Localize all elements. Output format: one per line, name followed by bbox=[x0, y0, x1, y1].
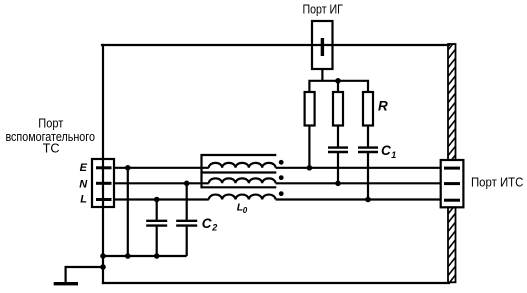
svg-text:Порт ИТС: Порт ИТС bbox=[471, 175, 523, 190]
resistor R3 bbox=[363, 92, 373, 126]
polarity dot L bbox=[279, 191, 284, 196]
svg-text:ТС: ТС bbox=[43, 141, 60, 156]
wire: port IG lead bbox=[321, 69, 323, 81]
junction: C1b / L wire bbox=[365, 197, 371, 203]
wire: C2a top lead from L bbox=[156, 200, 158, 220]
wire: ground branch bbox=[66, 267, 103, 283]
wire E left segment bbox=[114, 167, 209, 169]
junction: N / C2b bbox=[184, 181, 190, 187]
wire: C2b top lead from N bbox=[186, 183, 188, 220]
polarity dot E bbox=[279, 160, 284, 165]
wire: frame left bbox=[102, 45, 104, 283]
junction: bus / R2 bbox=[335, 78, 341, 84]
svg-text:0: 0 bbox=[243, 206, 248, 215]
polarity dot N bbox=[279, 175, 284, 180]
capacitor C2 (right) bbox=[176, 221, 197, 226]
wire: bottom bus bbox=[103, 255, 187, 257]
wire: C1b to L bbox=[367, 153, 369, 200]
port IG contact bar bbox=[321, 38, 324, 56]
svg-text:R: R bbox=[378, 98, 388, 113]
port aux TC box bbox=[92, 159, 114, 207]
svg-text:C: C bbox=[202, 216, 212, 231]
port ITS contact bar E bbox=[444, 167, 460, 170]
capacitor C1 (right) bbox=[358, 148, 378, 152]
port aux TC contact bar L bbox=[96, 198, 112, 201]
svg-text:2: 2 bbox=[211, 223, 217, 233]
wire: frame bottom bbox=[103, 282, 449, 284]
resistor R2 bbox=[333, 92, 343, 126]
port ITS contact bar N bbox=[444, 182, 460, 185]
junction: bus / C2a bbox=[154, 253, 160, 259]
wire: C1a to N bbox=[337, 153, 339, 184]
svg-text:E: E bbox=[80, 162, 88, 174]
ground bar bbox=[54, 282, 78, 285]
svg-text:L: L bbox=[80, 194, 87, 206]
junction: bus / frame bbox=[100, 253, 106, 259]
wire E right segment bbox=[276, 167, 441, 169]
port IG box bbox=[312, 21, 333, 69]
inductor L0 winding E bbox=[209, 163, 276, 168]
svg-text:N: N bbox=[79, 178, 88, 190]
wire: C2a bottom lead bbox=[156, 227, 158, 256]
junction: bus / drop bbox=[125, 253, 131, 259]
wire L left segment bbox=[114, 198, 209, 200]
wire: drop E to bottom bus bbox=[127, 168, 129, 256]
wire L right segment bbox=[276, 198, 441, 200]
junction: C1a / N wire bbox=[335, 181, 341, 187]
wire N right segment bbox=[276, 182, 441, 184]
inductor L0 core bracket bbox=[202, 155, 277, 187]
svg-text:1: 1 bbox=[391, 150, 396, 160]
port ITS box bbox=[441, 160, 464, 207]
wire: resistor top bus bbox=[309, 81, 368, 92]
wire: frame top bbox=[102, 44, 449, 46]
wire: R3 to C1b bbox=[367, 126, 369, 147]
junction: L / C2a bbox=[154, 197, 160, 203]
junction: E / drop bbox=[125, 165, 131, 171]
inductor L0 winding L bbox=[209, 195, 276, 200]
wire: R2 to C1a bbox=[337, 126, 339, 147]
inductor L0 core line middle bbox=[202, 171, 277, 173]
shield wall lower (hatched) bbox=[448, 205, 456, 293]
svg-text:Порт ИГ: Порт ИГ bbox=[302, 1, 343, 16]
capacitor C2 (left) bbox=[146, 221, 167, 226]
wire: R1 bottom lead to E bbox=[308, 126, 310, 168]
wire: C2b bottom lead bbox=[186, 227, 188, 256]
junction: ground branch bbox=[100, 264, 106, 270]
svg-text:C: C bbox=[381, 143, 391, 158]
wire N left segment bbox=[114, 182, 209, 184]
wire: R2 top lead bbox=[337, 81, 339, 92]
resistor R1 bbox=[305, 92, 315, 126]
shield wall upper (hatched) bbox=[448, 41, 456, 165]
port ITS contact bar L bbox=[444, 199, 460, 202]
port aux TC contact bar E bbox=[96, 166, 112, 169]
port aux TC contact bar N bbox=[96, 182, 112, 185]
junction: R1 / E wire bbox=[307, 165, 313, 171]
inductor L0 winding N bbox=[209, 178, 276, 183]
capacitor C1 (left) bbox=[328, 148, 348, 152]
